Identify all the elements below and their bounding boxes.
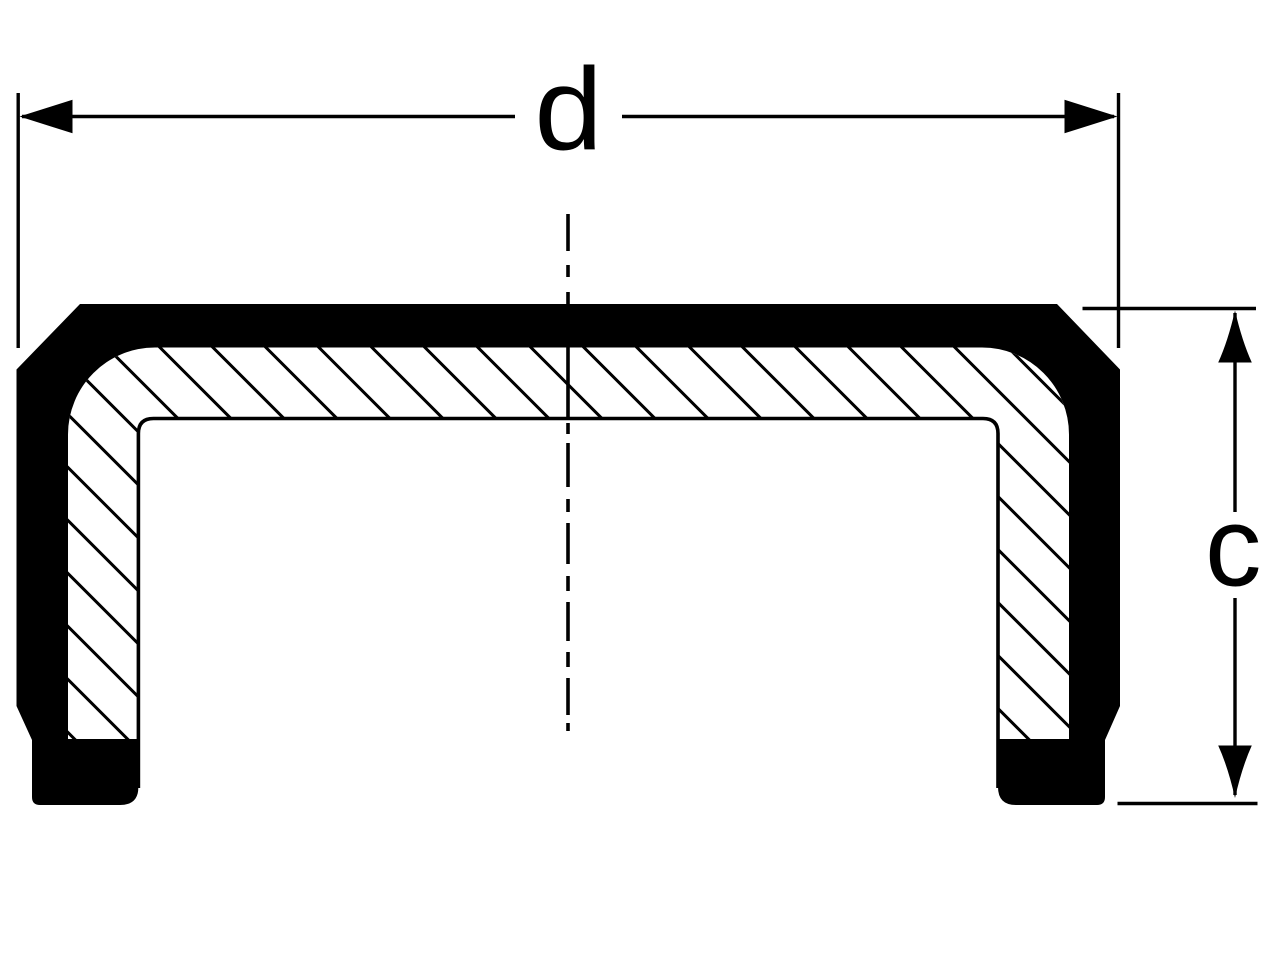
- dimension c: dimension line (upper part): [1233, 313, 1236, 512]
- centerline (dash-dot axis of symmetry): [566, 214, 570, 731]
- dimension c: top extension line: [1083, 307, 1257, 310]
- section hatch lines (45 degrees): [0, 338, 1280, 773]
- dimension c: bottom extension line: [1118, 802, 1258, 805]
- dimension d: right arrowhead: [1065, 100, 1118, 134]
- dimension c: bottom arrowhead: [1218, 746, 1252, 799]
- dimension d: dimension line (left part): [22, 115, 515, 118]
- cap cross-section body (black silhouette with slanted outer corners, side walls and feet): [17, 304, 1121, 805]
- dimension c: top arrowhead: [1218, 311, 1252, 363]
- rubber section zone (white underlay between outer black skin and cavity): [68, 347, 1069, 739]
- dimension d: dimension line (right part): [622, 115, 1114, 118]
- svg-text:d: d: [534, 44, 602, 175]
- svg-text:c: c: [1205, 484, 1262, 610]
- inner cavity (white): [138, 419, 998, 871]
- dimension d: left extension line: [17, 93, 20, 348]
- inner cavity outline: [138, 419, 998, 789]
- dimension c: dimension line (lower part): [1233, 598, 1236, 795]
- dimension d: right extension line: [1117, 93, 1120, 348]
- dimension d: left arrowhead: [20, 100, 73, 134]
- label d: [534, 44, 602, 175]
